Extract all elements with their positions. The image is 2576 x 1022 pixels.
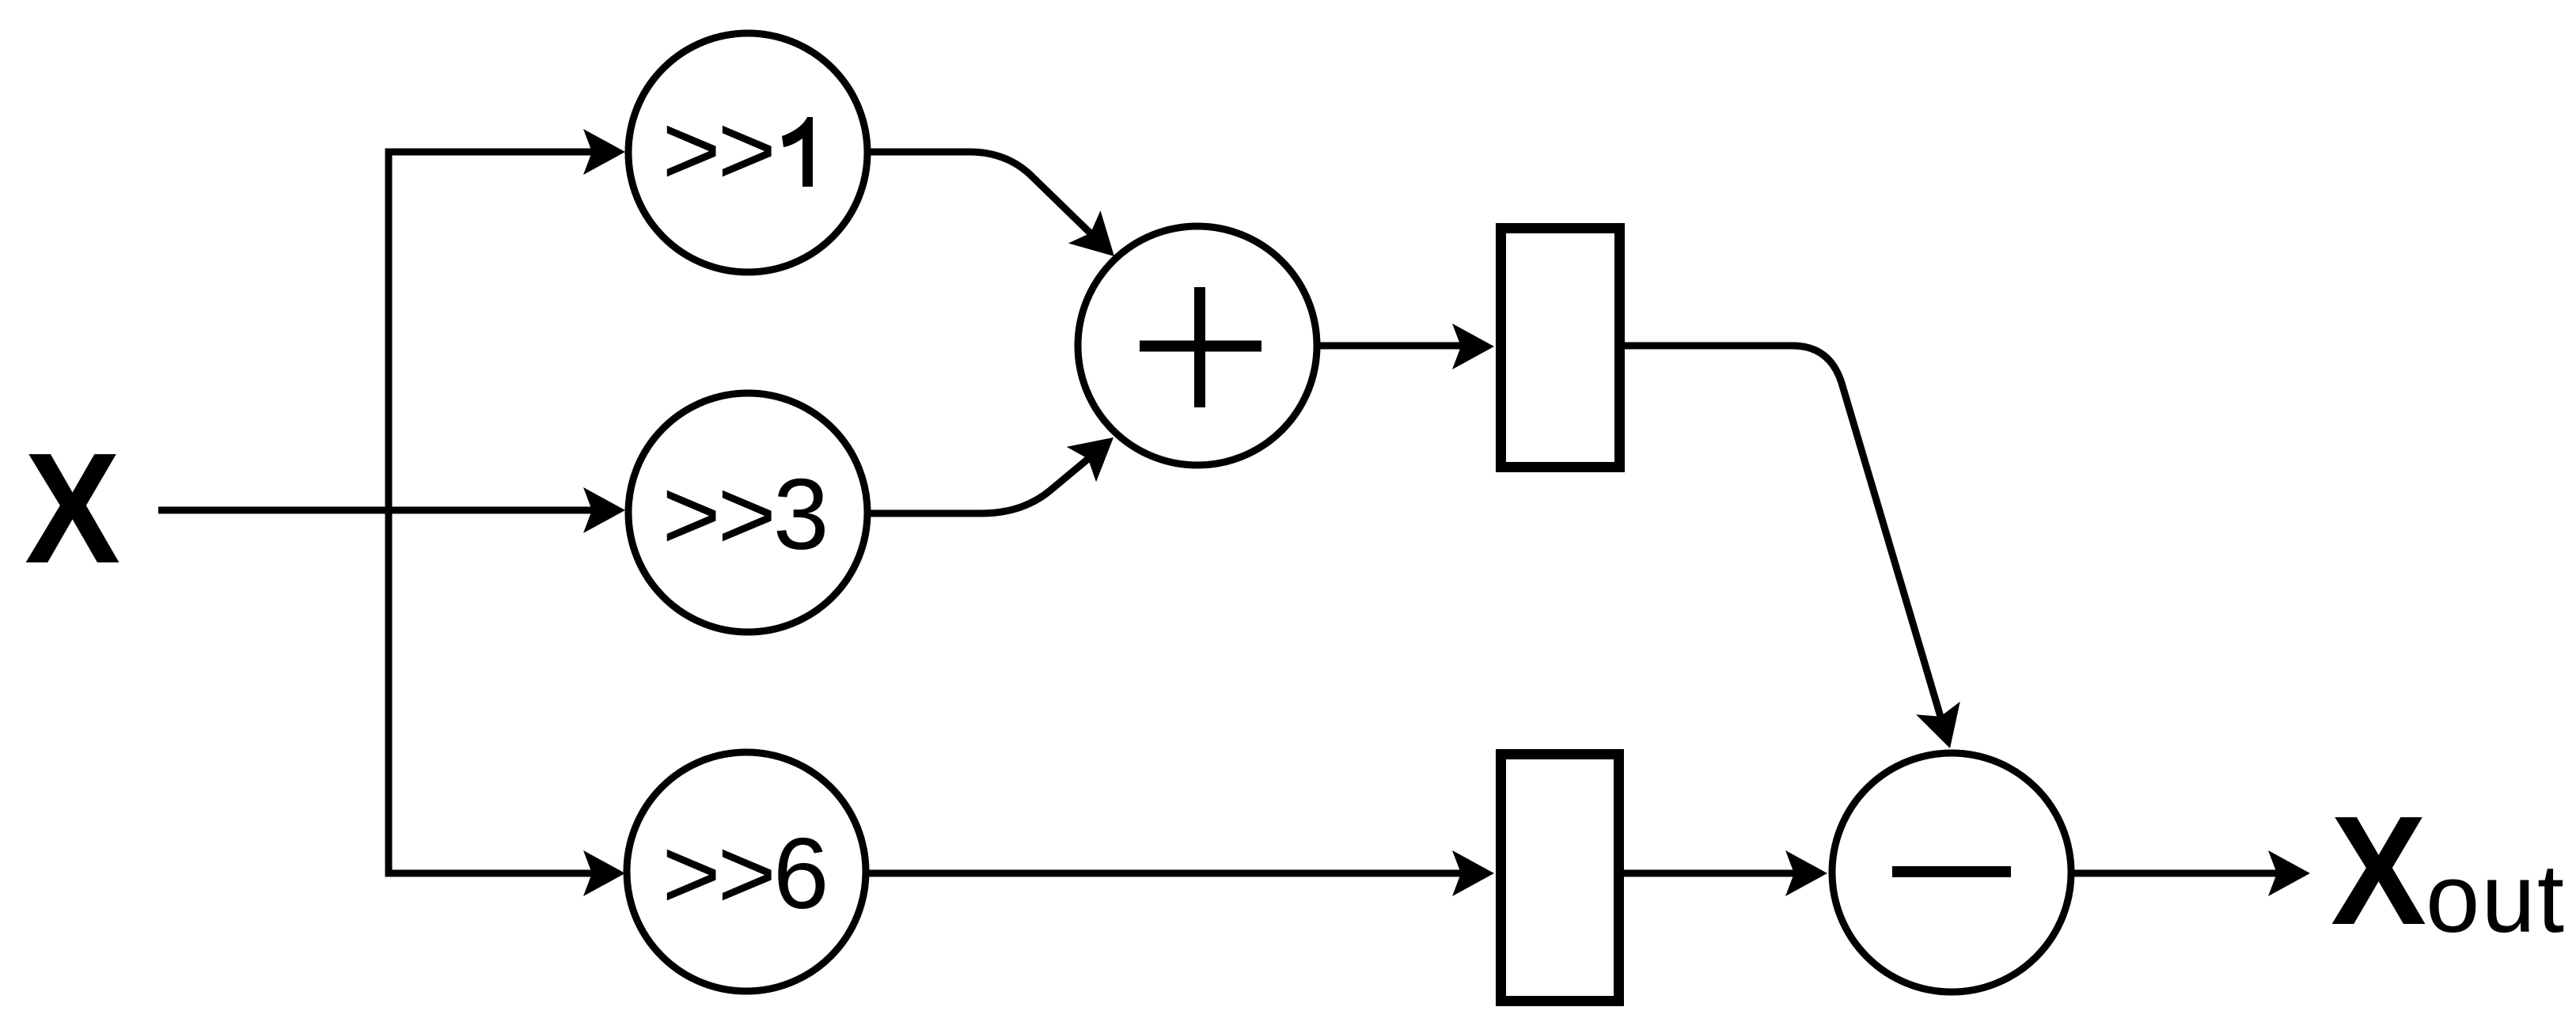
adder circle + bbox=[1078, 226, 1317, 465]
wire: >>1 to adder bbox=[871, 152, 1130, 273]
svg-text:X: X bbox=[25, 421, 120, 596]
shifter circle >>6 bbox=[627, 752, 866, 991]
wire: adder to register 1 bbox=[1320, 324, 1494, 369]
subtractor circle - bbox=[1832, 753, 2071, 992]
shifter circle >>1 bbox=[628, 33, 867, 272]
node Xout (output label) bbox=[2331, 784, 2566, 957]
wire: >>3 to adder bbox=[871, 420, 1129, 513]
svg-text:>>3: >>3 bbox=[662, 458, 826, 570]
svg-text:out: out bbox=[2426, 845, 2566, 953]
svg-text:>>6: >>6 bbox=[662, 817, 826, 929]
svg-text:>>: >> bbox=[662, 93, 773, 206]
wire: X input to shifter >>3 bbox=[158, 487, 625, 533]
wire: vertical trunk up and branch to shifter >>1 bbox=[389, 129, 625, 510]
register 2 (bottom rectangle) bbox=[1501, 755, 1619, 1001]
shifter circle >>3 bbox=[628, 393, 867, 632]
wire: register 1 to subtractor (down-right diagonal) bbox=[1625, 346, 1972, 755]
wire: subtractor to output Xout bbox=[2074, 850, 2310, 896]
svg-text:X: X bbox=[2331, 784, 2426, 957]
register 1 (top rectangle) bbox=[1501, 229, 1620, 467]
wire: register 2 to subtractor bbox=[1624, 850, 1827, 896]
wire: >>6 to register 2 bbox=[867, 850, 1494, 896]
wire: vertical trunk down and branch to shifter >>6 bbox=[389, 510, 625, 896]
